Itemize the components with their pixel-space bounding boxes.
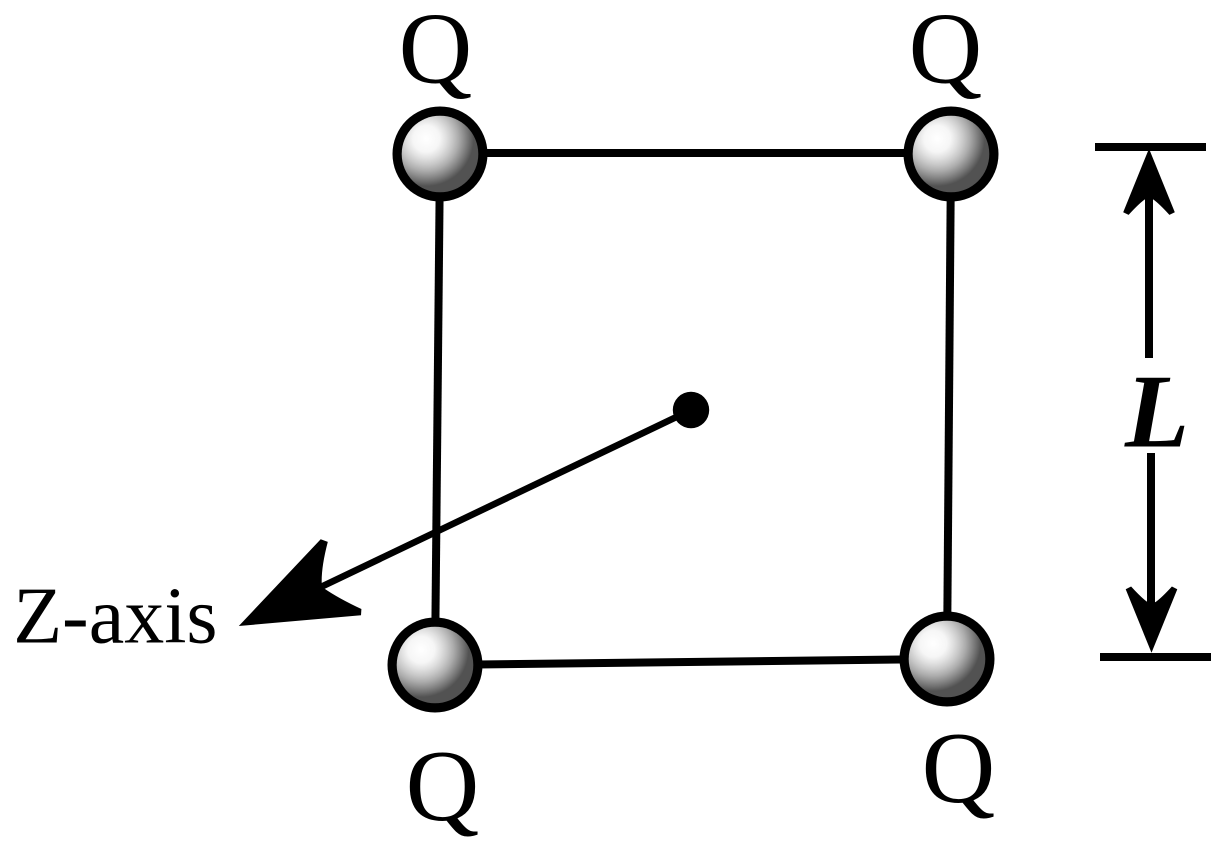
dimension arrowhead up [1123, 149, 1175, 215]
svg-text:L: L [1124, 353, 1189, 470]
dimension arrowhead down [1126, 587, 1178, 653]
svg-text:Q: Q [399, 0, 473, 106]
dimension extension bar bottom [1100, 653, 1211, 661]
dimension line lower segment [1147, 453, 1155, 640]
wire top side of square [440, 149, 951, 157]
wire left side of square [435, 154, 440, 665]
node center point of square [673, 392, 709, 428]
charge sphere Q bottom-left [388, 618, 483, 713]
charge sphere Q top-left [393, 107, 488, 202]
charge sphere Q top-right [904, 107, 999, 202]
svg-text:Z-axis: Z-axis [13, 573, 217, 661]
svg-text:Q: Q [922, 712, 996, 825]
wire right side of square [947, 154, 951, 659]
dimension extension bar top [1095, 143, 1206, 151]
dimension line upper segment [1145, 170, 1153, 358]
charge sphere Q bottom-right [900, 612, 995, 707]
z-axis arrow shaft [323, 410, 691, 586]
svg-text:Q: Q [909, 0, 983, 105]
z-axis arrowhead [239, 539, 362, 626]
wire bottom side of square [435, 659, 947, 665]
svg-text:Q: Q [406, 730, 480, 843]
